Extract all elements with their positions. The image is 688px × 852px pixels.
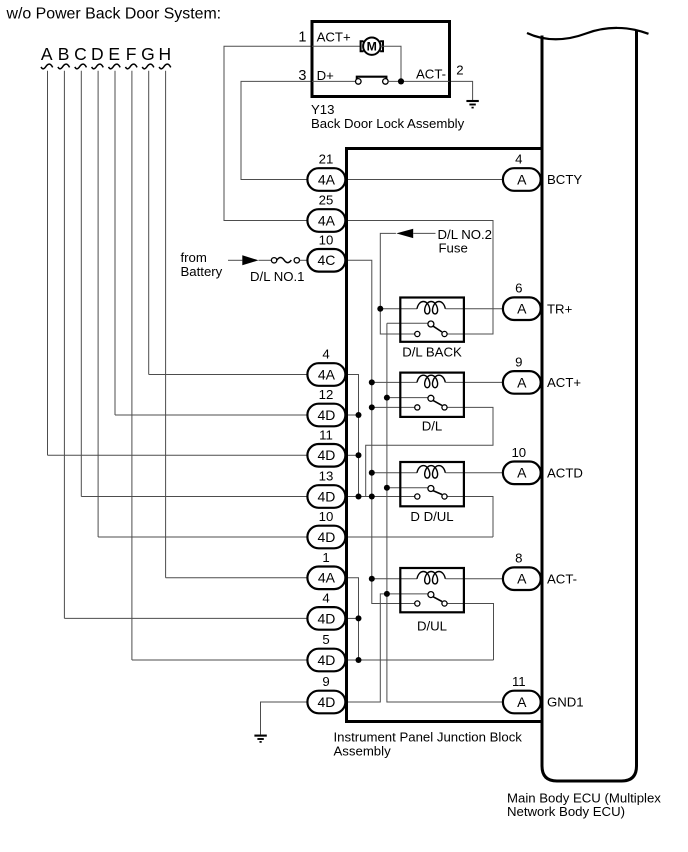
svg-text:D/L BACK: D/L BACK (402, 344, 462, 359)
wire D/UL coil left (372, 578, 417, 580)
svg-text:4D: 4D (317, 407, 335, 423)
svg-text:ACT+: ACT+ (547, 375, 581, 390)
wire E vertical (114, 71, 116, 415)
svg-text:Fuse: Fuse (439, 240, 468, 255)
relay D/L contact left (415, 405, 420, 410)
instrument panel junction block box (345, 147, 544, 150)
svg-text:D/L: D/L (422, 419, 443, 434)
wire D/UL coil right to ACT- (446, 578, 503, 580)
svg-text:D D/UL: D D/UL (410, 509, 453, 524)
svg-text:4C: 4C (317, 252, 335, 268)
junction dot (358,496) (356, 494, 362, 500)
wire D/L pivot (387, 397, 428, 399)
relay D/UL contact right (442, 601, 447, 606)
svg-text:Instrument Panel Junction Bloc: Instrument Panel Junction Block (334, 730, 523, 745)
svg-text:11: 11 (512, 674, 526, 689)
connector A pin 4 (BCTY) (503, 168, 541, 191)
relay D/L BACK switch pivot (428, 321, 434, 327)
svg-text:ACT+: ACT+ (317, 29, 351, 44)
svg-text:TR+: TR+ (547, 301, 573, 316)
svg-text:D+: D+ (317, 68, 335, 83)
svg-text:4D: 4D (317, 529, 335, 545)
svg-text:A: A (517, 465, 527, 481)
junction dot (380,309) (377, 306, 383, 312)
back door lock assembly Y13 box (312, 22, 450, 97)
connector 4A pin 4 (307, 363, 345, 386)
svg-text:Battery: Battery (181, 264, 223, 279)
motor M1 (361, 41, 364, 51)
connector A pin 11 (GND1) (503, 691, 541, 714)
junction dot (358,415) (356, 412, 362, 418)
svg-text:11: 11 (319, 427, 333, 442)
wire F vertical (131, 71, 133, 660)
wire D D/UL coil right to ACTD (446, 472, 503, 474)
wire G to connector row y=374 (149, 374, 308, 376)
svg-text:Network Body ECU): Network Body ECU) (507, 804, 625, 819)
svg-text:D/UL: D/UL (417, 619, 447, 634)
ground G2 (body) (254, 735, 266, 737)
svg-text:4: 4 (515, 152, 522, 167)
wire fuse to 4C (300, 259, 308, 261)
connector 4A pin 1 (307, 567, 345, 590)
relay D/L switch pivot (428, 395, 434, 401)
svg-text:A: A (517, 571, 527, 587)
svg-text:4A: 4A (318, 171, 336, 187)
wire 4C bus V3 (345, 260, 414, 603)
relay D/L BACK contact right (442, 331, 447, 336)
junction dot (372,382) (369, 379, 375, 385)
svg-text:M: M (367, 40, 377, 54)
relay D/UL coil (417, 572, 445, 584)
relay D/UL switch pivot (428, 592, 434, 598)
wire D/L BACK pivot (387, 322, 428, 324)
connector A pin 10 (ACTD) (503, 462, 541, 485)
wire D/L BACK coil left (380, 308, 417, 310)
ground G1 (back door lock) (466, 100, 478, 102)
wire pivot bus V5 to GND1 (387, 323, 503, 702)
wire to D/L NO.2 fuse arrow (380, 233, 414, 334)
wire D+ inside (312, 80, 355, 82)
connector 4D pin 9 (307, 691, 345, 714)
wire 4D/10 row (345, 536, 493, 538)
wire from Battery (228, 259, 242, 261)
wire D/L contact left (372, 406, 415, 408)
junction dot (358,660) (356, 657, 362, 663)
svg-text:5: 5 (322, 632, 329, 647)
svg-text:4D: 4D (317, 652, 335, 668)
wire D/L coil left (372, 381, 417, 383)
svg-text:10: 10 (319, 232, 334, 247)
wire A vertical (47, 71, 49, 456)
svg-text:2: 2 (456, 63, 463, 78)
wire H to connector row y=577 (166, 577, 308, 579)
svg-text:A: A (517, 301, 527, 317)
svg-text:9: 9 (322, 674, 329, 689)
svg-text:GND1: GND1 (547, 695, 584, 710)
wire 4A/25 to D/L BACK contact (J1) (345, 221, 493, 335)
main body ECU break wave (527, 28, 649, 39)
wire break symbol B (58, 64, 70, 69)
junction dot (387,398) (384, 395, 390, 401)
svg-text:10: 10 (511, 445, 526, 460)
junction dot (372,496) (369, 494, 375, 500)
wire C vertical (80, 71, 82, 497)
svg-text:3: 3 (298, 68, 306, 84)
wire D/L coil right to ACT+ (446, 381, 503, 383)
svg-text:G: G (141, 44, 155, 64)
wire switch to pin2 (388, 80, 449, 82)
svg-text:F: F (126, 44, 137, 64)
wire break symbol F (126, 64, 138, 69)
svg-text:4D: 4D (317, 610, 335, 626)
svg-text:ACT-: ACT- (547, 571, 577, 586)
svg-text:13: 13 (319, 469, 334, 484)
svg-text:Back Door Lock Assembly: Back Door Lock Assembly (311, 116, 465, 131)
svg-text:C: C (74, 44, 87, 64)
connector 4A pin 25 (307, 209, 345, 232)
wire D D/UL pivot (387, 487, 428, 489)
svg-text:12: 12 (319, 387, 334, 402)
svg-text:25: 25 (319, 193, 334, 208)
wire 4D/4 stub (345, 617, 358, 619)
fuse D/L NO.1 (271, 258, 276, 263)
svg-text:9: 9 (515, 354, 522, 369)
wire E to connector row y=415 (115, 414, 307, 416)
wire B vertical (63, 71, 65, 619)
svg-text:A: A (517, 374, 527, 390)
relay D/L BACK contact left (415, 331, 420, 336)
relay D/L switch lever (433, 400, 442, 405)
wire break symbol G (142, 64, 154, 69)
wire 4D/13 row to D D/UL contact (345, 496, 414, 498)
connector 4D pin 5 (307, 649, 345, 672)
wire D/UL pivot from 4D/9 riser V6 (345, 594, 427, 702)
svg-text:A: A (517, 694, 527, 710)
junction dot (358,618) (356, 615, 362, 621)
connector 4D pin 12 (307, 404, 345, 427)
connector 4D pin 13 (307, 485, 345, 508)
svg-text:4D: 4D (317, 447, 335, 463)
wire D/L switch out (J2) (448, 406, 465, 408)
svg-text:8: 8 (515, 551, 522, 566)
svg-text:1: 1 (298, 29, 306, 45)
junction dot motor/switch (398, 78, 404, 84)
svg-text:A: A (41, 44, 53, 64)
wire A to connector row y=455 (48, 454, 308, 456)
relay D/UL box (400, 568, 464, 612)
wire 4D/12 stub (345, 414, 358, 416)
svg-text:w/o Power Back Door System:: w/o Power Back Door System: (6, 5, 222, 22)
relay D/L coil (417, 375, 445, 387)
svg-text:4: 4 (322, 347, 329, 362)
connector 4D pin 10 (307, 526, 345, 549)
svg-text:10: 10 (319, 509, 334, 524)
relay D D/UL switch lever (433, 491, 442, 495)
wire D to connector row y=537 (98, 536, 307, 538)
connector A pin 6 (TR+) (503, 297, 541, 320)
connector 4D pin 4 (307, 607, 345, 630)
wire 4D/9 to body ground (261, 702, 308, 735)
svg-text:D/L NO.1: D/L NO.1 (250, 269, 304, 284)
wire bus V1: 4A/4,4D/12,4D/11,4D/13 (345, 375, 358, 497)
relay D/L box (400, 373, 464, 417)
svg-text:ACT-: ACT- (416, 67, 446, 82)
junction dot (387,594) (384, 591, 390, 597)
junction dot (387,488) (384, 485, 390, 491)
junction dot (372,473) (369, 470, 375, 476)
svg-text:4D: 4D (317, 694, 335, 710)
connector A pin 9 (ACT+) (503, 371, 541, 394)
wire D/UL switch out (J4) to 4D/5 (448, 603, 465, 605)
wire break symbol C (75, 64, 87, 69)
svg-text:H: H (158, 44, 171, 64)
svg-text:E: E (108, 44, 120, 64)
relay D/L BACK box (400, 298, 464, 342)
wire D/L BACK contact right out (448, 333, 465, 335)
relay D/UL switch lever (433, 597, 442, 602)
wire 4D/5 row (345, 659, 493, 661)
svg-text:ACTD: ACTD (547, 465, 583, 480)
relay D/UL contact left (415, 601, 420, 606)
wire motor to ACT- node (381, 46, 402, 81)
wire C to connector row y=496 (81, 496, 307, 498)
connector A pin 8 (ACT-) (503, 567, 541, 590)
svg-text:4D: 4D (317, 488, 335, 504)
arrow from Battery (242, 255, 258, 265)
relay D D/UL contact right (442, 494, 447, 499)
connector 4A pin 21 (307, 168, 345, 191)
wire G vertical (148, 71, 150, 375)
wire F to connector row y=660 (132, 659, 308, 661)
svg-text:A: A (517, 171, 527, 187)
junction dot (372,407) (369, 404, 375, 410)
junction dot (372,579) (369, 576, 375, 582)
wire H vertical (165, 71, 167, 578)
relay D/L BACK switch lever (433, 326, 442, 332)
wire break symbol H (159, 64, 171, 69)
svg-text:4A: 4A (318, 212, 336, 228)
connector 4D pin 11 (307, 444, 345, 467)
wire Y13 pin2 ACT- to ground (450, 81, 473, 100)
relay D/L contact right (442, 405, 447, 410)
relay D D/UL switch pivot (428, 486, 434, 492)
svg-text:BCTY: BCTY (547, 172, 582, 187)
junction dot (358,455) (356, 452, 362, 458)
wire D D/UL switch out (J3) to 4D/10 (448, 496, 465, 498)
arrow D/L NO.2 fuse (396, 229, 413, 238)
wire Y13 pin1 ACT+ to 4A/25 (224, 46, 311, 220)
svg-text:21: 21 (319, 152, 334, 167)
wire break symbol E (109, 64, 121, 69)
wire Y13 pin3 D+ to 4A/21 (241, 81, 311, 179)
relay D/L BACK coil (417, 302, 445, 314)
relay D D/UL contact left (415, 494, 420, 499)
svg-text:4: 4 (322, 590, 329, 605)
svg-text:6: 6 (515, 281, 522, 296)
connector 4C pin 10 (307, 249, 345, 272)
wire 4D/11 stub (345, 454, 358, 456)
wire bus V2: 4A/1,4D/4,4D/5 (345, 578, 358, 660)
wire D vertical (97, 71, 99, 537)
relay D D/UL coil (417, 466, 445, 478)
svg-text:D: D (91, 44, 104, 64)
relay D D/UL box (400, 462, 464, 506)
door switch contacts (356, 79, 362, 85)
wire B to connector row y=618 (64, 617, 307, 619)
wire BCTY: 4A/21 to ECU A/4 (345, 179, 503, 181)
wire D/L BACK coil right to TR+ (446, 308, 503, 310)
wire ACT+ inside (312, 45, 360, 47)
svg-text:1: 1 (322, 550, 329, 565)
svg-text:B: B (58, 44, 70, 64)
svg-text:Assembly: Assembly (334, 743, 392, 758)
svg-text:4A: 4A (318, 366, 336, 382)
wire D D/UL coil left (372, 472, 417, 474)
door switch bridge (357, 77, 387, 79)
wire break symbol A (41, 64, 53, 69)
wire arrow to fuse (259, 259, 272, 261)
main body ECU box (542, 31, 637, 782)
svg-text:4A: 4A (318, 570, 336, 586)
wire break symbol D (92, 64, 104, 69)
